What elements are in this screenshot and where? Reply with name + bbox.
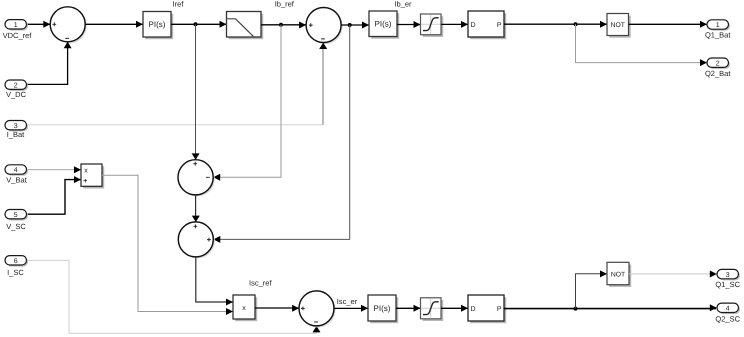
wire DP2 to Out4 with junction J5 (504, 304, 717, 311)
svg-text:VDC_ref: VDC_ref (3, 31, 33, 40)
svg-text:PI(s): PI(s) (374, 304, 391, 313)
wire V_SC up to Prod1 second input (27, 176, 81, 214)
wire S2 to PI2 with junction (341, 22, 369, 29)
output port 1 Q1_Bat (705, 20, 731, 40)
input port 4 V_Bat (5, 165, 28, 185)
wire NOT1 to Out1 (629, 21, 708, 28)
svg-text:5: 5 (14, 212, 18, 219)
svg-text:4: 4 (726, 306, 730, 313)
svg-text:D: D (471, 22, 476, 29)
wire Sat1 to DP1 (441, 21, 468, 28)
logic NOT2 (607, 262, 631, 287)
PI controller PI2 (369, 11, 399, 39)
wire NOT2 to Out3 (629, 271, 717, 278)
svg-text:+: + (83, 178, 87, 185)
wire S3 to S4 (192, 195, 200, 222)
svg-text:PI(s): PI(s) (375, 20, 392, 29)
PI controller PI1 (143, 12, 173, 40)
wire PI3 to Sat2 (396, 305, 421, 312)
wire I_SC route along bottom up into S5 minus (27, 260, 321, 333)
svg-text:PI(s): PI(s) (149, 20, 166, 29)
input port 3 I_Bat (5, 121, 28, 140)
wire J4 down to Out2 (576, 24, 708, 66)
sum S4 (178, 222, 215, 259)
wire J3 drop to S4 plus right (213, 25, 349, 243)
wire V_Bat to Prod1 (27, 166, 82, 173)
wire Prod1 output down to Prod2 second input (102, 175, 233, 315)
product Prod1 (81, 164, 104, 189)
sum S3 (178, 160, 215, 197)
wire DP1 to NOT1 with junction J4 (504, 21, 607, 28)
svg-text:I_Bat: I_Bat (7, 130, 25, 139)
PI controller PI3 (368, 295, 398, 323)
wire filter to S2 with junction (261, 22, 306, 29)
svg-text:Isc_er: Isc_er (337, 297, 358, 306)
svg-text:P: P (497, 306, 502, 313)
wire Prod2 to S5 (255, 305, 299, 312)
input port 5 V_SC (5, 210, 28, 232)
wire J5 up to NOT2 (576, 270, 608, 308)
wire V_DC up into S1 minus (27, 42, 72, 85)
svg-text:V_SC: V_SC (6, 222, 26, 231)
svg-text:Ib_ref: Ib_ref (275, 0, 295, 8)
svg-text:6: 6 (14, 258, 18, 265)
saturation Sat2 (421, 298, 444, 321)
svg-text:P: P (497, 22, 502, 29)
lowpass filter block (227, 12, 264, 40)
wire S1 to PI1 (85, 21, 143, 28)
input port 2 V_DC (5, 80, 28, 99)
wire I_Bat across and up into S2 minus (27, 43, 328, 125)
PWM subsystem DP2 (468, 295, 506, 323)
svg-text:2: 2 (716, 60, 720, 67)
output port 4 Q2_SC (715, 303, 740, 323)
svg-text:3: 3 (14, 123, 18, 130)
svg-text:2: 2 (14, 82, 18, 89)
svg-text:Q1_SC: Q1_SC (715, 280, 740, 289)
input port 1 VDC_ref (3, 20, 33, 41)
svg-text:x: x (84, 168, 88, 175)
svg-text:x: x (242, 305, 246, 312)
wire S4 down and right to Prod2 (196, 257, 233, 306)
svg-text:Q1_Bat: Q1_Bat (705, 31, 731, 40)
svg-text:Isc_ref: Isc_ref (249, 279, 272, 288)
PWM subsystem DP1 (468, 11, 506, 39)
svg-text:V_DC: V_DC (6, 90, 27, 99)
svg-text:3: 3 (726, 272, 730, 279)
svg-text:4: 4 (14, 167, 18, 174)
svg-text:Iref: Iref (173, 0, 185, 8)
svg-text:NOT: NOT (611, 22, 625, 29)
logic NOT1 (607, 14, 631, 38)
wire S5 to PI3 (334, 305, 368, 312)
saturation Sat1 (421, 14, 444, 37)
svg-text:D: D (471, 306, 476, 313)
wire PI1 to filter with junction (171, 21, 227, 28)
svg-text:1: 1 (14, 22, 18, 29)
svg-text:I_SC: I_SC (7, 268, 24, 277)
svg-text:Q2_SC: Q2_SC (715, 314, 740, 323)
wire Sat2 to DP2 (441, 305, 468, 312)
sum S1 (50, 7, 87, 44)
svg-text:V_Bat: V_Bat (6, 175, 27, 184)
svg-text:1: 1 (716, 22, 720, 29)
input port 6 I_SC (5, 256, 28, 277)
svg-text:NOT: NOT (611, 272, 625, 279)
wire J2 drop to S3 minus (213, 25, 281, 181)
wire PI2 to Sat1 (397, 21, 421, 28)
svg-text:Ib_er: Ib_er (394, 0, 412, 8)
sum S2 (306, 8, 343, 45)
sum S5 (299, 291, 336, 328)
wire J1 drop to S3 plus (192, 24, 200, 160)
output port 2 Q2_Bat (705, 58, 731, 78)
svg-text:Q2_Bat: Q2_Bat (705, 69, 731, 78)
product Prod2 (233, 295, 257, 321)
output port 3 Q1_SC (715, 269, 740, 289)
wire In1 to S1 (27, 21, 51, 28)
